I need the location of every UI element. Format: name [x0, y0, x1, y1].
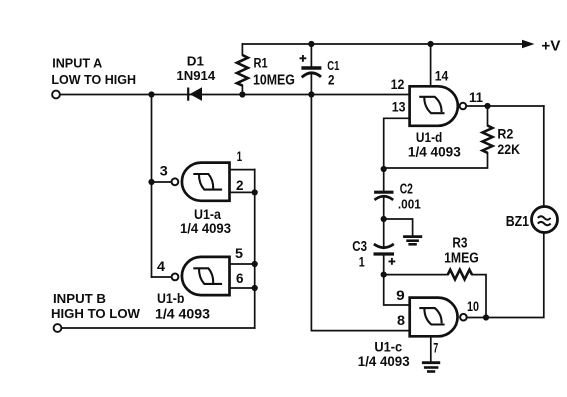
- svg-text:7: 7: [433, 339, 438, 355]
- wire +V top rail: [242, 43, 522, 45]
- resistor R3: [448, 270, 472, 280]
- svg-text:1/4 4093: 1/4 4093: [180, 221, 231, 236]
- svg-text:+V: +V: [541, 39, 560, 55]
- svg-text:1/4 4093: 1/4 4093: [408, 145, 461, 160]
- resistor R2: [483, 126, 493, 153]
- wire node input-A vertical to gates: [151, 95, 153, 278]
- svg-text:3: 3: [160, 162, 168, 178]
- node dot C3 bottom: [381, 272, 387, 278]
- svg-text:2: 2: [328, 71, 335, 87]
- svg-text:1: 1: [237, 148, 243, 164]
- node dot pin11: [484, 103, 490, 109]
- wire node to pin9: [384, 275, 410, 305]
- capacitor C2: [374, 192, 393, 200]
- svg-text:10MEG: 10MEG: [253, 73, 295, 89]
- svg-text:U1-a: U1-a: [194, 206, 221, 222]
- node dot C1 bottom: [308, 91, 314, 97]
- gate U1-c (NAND gate): [410, 298, 467, 337]
- wire pin11 to node: [466, 105, 544, 107]
- wire R1 bottom stub: [241, 86, 243, 95]
- wire C3 bottom to node: [383, 255, 385, 275]
- node dot R1 bottom: [239, 91, 245, 97]
- svg-text:LOW TO HIGH: LOW TO HIGH: [51, 72, 136, 87]
- svg-text:10: 10: [467, 298, 479, 314]
- svg-text:22K: 22K: [497, 141, 520, 157]
- svg-text:1/4 4093: 1/4 4093: [155, 307, 211, 322]
- wire pin1: [230, 169, 255, 171]
- svg-text:C2: C2: [400, 182, 413, 198]
- node dot pin14 rail: [428, 41, 434, 47]
- wire R2 bottom to C2 node: [384, 153, 488, 191]
- node dot C2 bottom gnd branch: [381, 216, 387, 222]
- svg-text:U1-b: U1-b: [157, 290, 185, 306]
- svg-text:13: 13: [392, 99, 406, 115]
- node dot pin3 branch: [148, 179, 154, 185]
- svg-text:1/4 4093: 1/4 4093: [358, 353, 410, 369]
- capacitor C3: [374, 244, 396, 265]
- node dot pin2: [252, 189, 258, 195]
- svg-text:4: 4: [157, 258, 165, 274]
- wire pin8 long: [311, 95, 409, 331]
- svg-text:12: 12: [391, 76, 405, 92]
- ground (C2 branch): [403, 237, 422, 245]
- terminal input A: [52, 91, 60, 99]
- capacitor C1: [300, 55, 322, 77]
- wire pin3 stub: [152, 181, 172, 183]
- wire pin13: [384, 118, 410, 169]
- resistor R1: [237, 55, 248, 86]
- svg-text:11: 11: [469, 89, 483, 105]
- gate U1-b (NAND gate, mirrored): [172, 257, 230, 295]
- +V arrowhead: [522, 40, 535, 48]
- node dot pin6: [252, 285, 258, 291]
- wire pin6: [230, 287, 255, 289]
- svg-text:BZ1: BZ1: [506, 214, 529, 230]
- wire R2 top stub: [487, 106, 489, 126]
- wire C2 to gnd node: [383, 197, 385, 220]
- svg-text:5: 5: [235, 245, 243, 261]
- wire pin5: [230, 263, 255, 265]
- wire pin7 stub: [430, 336, 432, 361]
- wire pin14 vertical: [430, 44, 432, 86]
- svg-text:R3: R3: [452, 235, 467, 251]
- node dot pin5: [252, 261, 258, 267]
- svg-text:.001: .001: [398, 197, 421, 212]
- svg-text:8: 8: [397, 312, 405, 328]
- svg-text:6: 6: [236, 270, 244, 286]
- wire right connector vertical pins 1-2-5-6: [254, 170, 256, 328]
- wire C3 top stub: [383, 219, 385, 248]
- svg-text:9: 9: [396, 287, 405, 303]
- diode D1: [188, 87, 202, 101]
- wire C2 ground branch: [384, 219, 413, 235]
- wire R1 top stub: [241, 44, 243, 55]
- svg-text:HIGH TO LOW: HIGH TO LOW: [51, 306, 141, 321]
- svg-text:1: 1: [359, 254, 365, 270]
- node dot C1 top rail: [308, 41, 314, 47]
- svg-text:1N914: 1N914: [176, 68, 216, 83]
- wire pin2: [230, 191, 255, 193]
- node dot input A / vertical: [148, 91, 154, 97]
- wire main input-A horizontal: [60, 94, 410, 96]
- wire R3 right to pin10 node: [472, 275, 486, 318]
- svg-text:1MEG: 1MEG: [444, 251, 479, 267]
- wire C1 bottom stub: [310, 73, 312, 95]
- node dot pin10: [483, 314, 489, 320]
- svg-text:INPUT B: INPUT B: [53, 291, 106, 306]
- ground (pin 7): [422, 363, 440, 372]
- svg-text:D1: D1: [187, 53, 204, 68]
- wire BZ1 bottom vertical: [486, 232, 544, 317]
- wire pin10 stub: [467, 317, 486, 319]
- svg-text:R1: R1: [254, 56, 269, 71]
- op-amp U1-a (NAND gate, mirrored): [172, 163, 230, 201]
- wire C1 top stub: [310, 44, 312, 67]
- node dot C2 top: [381, 166, 387, 172]
- wire input-B horizontal: [62, 327, 255, 329]
- wire BZ1 top vertical: [543, 106, 545, 207]
- svg-text:R2: R2: [497, 126, 513, 142]
- svg-text:INPUT A: INPUT A: [52, 56, 103, 71]
- gate U1-d (NAND gate): [410, 86, 467, 126]
- buzzer BZ1: [532, 207, 558, 233]
- svg-text:2: 2: [236, 177, 244, 193]
- terminal input B: [54, 324, 62, 332]
- wire node to R3: [384, 274, 448, 276]
- svg-text:U1-d: U1-d: [416, 130, 442, 145]
- wire pin4 stub: [152, 276, 172, 278]
- svg-text:14: 14: [435, 68, 449, 84]
